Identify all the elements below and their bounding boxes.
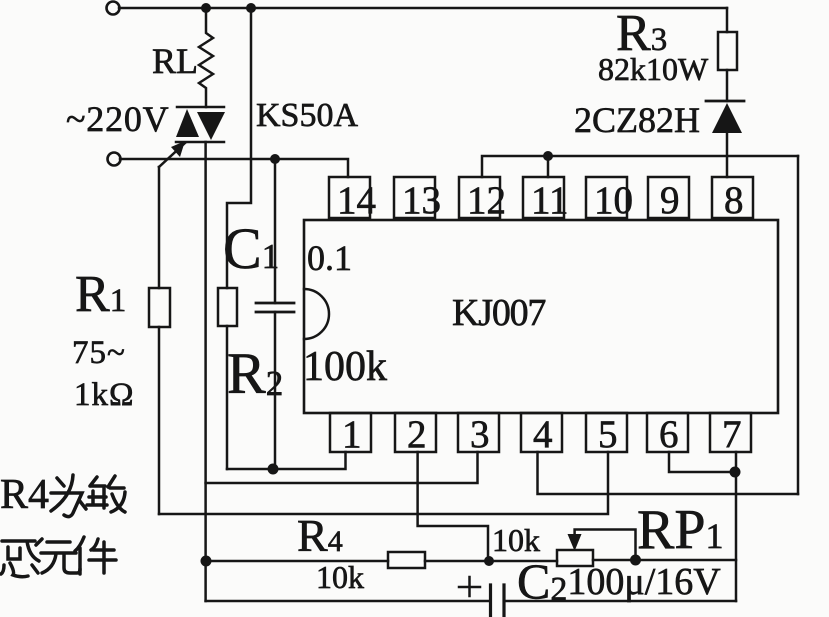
- wire pin5 line: [159, 452, 608, 514]
- node junction T2 wire / C1: [270, 154, 280, 164]
- wire R3 corner from top rail: [726, 8, 729, 32]
- svg-text:4: 4: [533, 413, 553, 456]
- wire R4 to junction: [425, 560, 557, 563]
- char gan: [1, 539, 42, 577]
- potentiometer RP1 body: [557, 550, 593, 566]
- svg-text:KJ007: KJ007: [452, 292, 545, 334]
- svg-text:10: 10: [594, 179, 633, 222]
- note text R4 (chinese): [0, 472, 125, 577]
- wire RP1 right: [593, 559, 736, 562]
- svg-text:0.1: 0.1: [307, 238, 352, 278]
- svg-text:2CZ82H: 2CZ82H: [574, 100, 700, 140]
- capacitor C1 plates: [256, 303, 294, 312]
- node junction pin6/pin7: [730, 467, 741, 478]
- wire diode to pin 8: [726, 133, 729, 177]
- pin 1 box: [330, 413, 371, 456]
- pin 6 box: [647, 413, 688, 456]
- char wei: [51, 475, 86, 517]
- capacitor C1 upper lead: [274, 159, 277, 303]
- node junction top rail / RL: [201, 3, 211, 13]
- wire R1 down to pin5 line: [158, 327, 161, 514]
- wire triac MT1 vertical down to bottom rail: [204, 142, 207, 601]
- pin 12 box: [459, 177, 506, 222]
- node junction triac line / R4 line: [201, 556, 212, 567]
- RP1 wiper arrow: [568, 534, 582, 551]
- wire pin 12 / pin 11 top line: [482, 156, 798, 177]
- wire R4 line left: [206, 560, 388, 563]
- wire pin 3 line: [206, 452, 478, 483]
- wire pin 7 down to bottom right corner: [735, 452, 738, 601]
- pin 5 box: [586, 413, 627, 456]
- wire pin 11 stub: [547, 156, 550, 177]
- wire pin 6 to pin 7: [669, 452, 735, 472]
- svg-text:1kΩ: 1kΩ: [74, 377, 135, 413]
- node junction R4 / pin2 branch: [484, 556, 494, 566]
- pin 11 box: [523, 177, 569, 222]
- svg-text:~220V: ~220V: [66, 99, 169, 139]
- capacitor C2 plates: [491, 585, 505, 616]
- svg-text:13: 13: [402, 179, 441, 222]
- svg-text:82k10W: 82k10W: [598, 51, 709, 87]
- wire R2 branch from top rail with jog: [227, 8, 251, 288]
- pin 13 box: [394, 177, 441, 222]
- pin 7 box: [710, 413, 751, 456]
- triac KS50A: [176, 107, 225, 142]
- svg-text:11: 11: [531, 179, 569, 222]
- node junction pin11 line: [543, 151, 553, 161]
- svg-text:C2100μ/16V: C2100μ/16V: [517, 553, 721, 609]
- wire pin 4 line: [538, 452, 799, 494]
- svg-text:5: 5: [598, 413, 618, 456]
- diode 2CZ82H cathode bar: [706, 100, 744, 103]
- wire bottom rail left of C2: [206, 600, 489, 603]
- svg-text:7: 7: [722, 413, 742, 456]
- svg-text:RL: RL: [152, 41, 198, 81]
- wire RP1 wiper to right terminal: [575, 530, 636, 561]
- terminal T1 (AC input top): [107, 2, 120, 15]
- capacitor C1 lower lead: [274, 312, 277, 469]
- svg-text:3: 3: [470, 413, 490, 456]
- pin 4 box: [521, 413, 562, 456]
- svg-text:1: 1: [342, 413, 362, 456]
- node junction C1 / pin1 line: [268, 464, 279, 475]
- svg-text:KS50A: KS50A: [256, 97, 358, 134]
- char jian: [75, 537, 116, 574]
- wire pin 2 branch: [418, 452, 488, 560]
- svg-text:6: 6: [659, 413, 679, 456]
- svg-text:9: 9: [660, 179, 680, 222]
- char min: [87, 476, 125, 512]
- pin 8 box: [712, 177, 753, 222]
- svg-text:10k: 10k: [316, 559, 364, 595]
- svg-text:100k: 100k: [303, 344, 387, 390]
- resistor R4: [388, 552, 425, 568]
- diode 2CZ82H triangle: [712, 103, 742, 133]
- wire pin1 line: [227, 452, 346, 469]
- IC notch: [304, 289, 329, 339]
- resistor R2: [218, 288, 237, 326]
- wire triac gate diagonal: [159, 143, 185, 167]
- svg-text:R4: R4: [0, 472, 49, 518]
- wire R2 down to pin1 line: [226, 326, 229, 469]
- char yuan: [41, 542, 80, 573]
- wire R3 to diode: [726, 70, 729, 101]
- node junction RP1 wiper / line: [630, 555, 641, 566]
- wire top rail from T1 to R3 corner: [119, 7, 727, 10]
- node junction top rail / R2 branch: [246, 3, 256, 13]
- pin 14 box: [329, 177, 376, 222]
- pin 2 box: [395, 413, 436, 456]
- svg-text:75~: 75~: [72, 335, 126, 371]
- resistor R3: [718, 32, 737, 70]
- svg-text:14: 14: [337, 179, 376, 222]
- gate arrowhead: [171, 141, 185, 157]
- wire right side down to pin4 line: [797, 156, 800, 494]
- pin 9 box: [648, 177, 689, 222]
- resistor RL (zigzag): [199, 8, 213, 107]
- pin 3 box: [458, 413, 499, 456]
- wire gate down to R1: [158, 167, 161, 288]
- resistor R1: [149, 288, 170, 327]
- wire bottom rail right of C2: [504, 600, 736, 603]
- terminal T2 (AC input bottom): [108, 153, 121, 166]
- pin 10 box: [586, 177, 633, 222]
- capacitor C2 polarity plus: [459, 577, 480, 596]
- svg-text:12: 12: [467, 179, 506, 222]
- svg-text:2: 2: [407, 413, 427, 456]
- svg-text:8: 8: [724, 179, 744, 222]
- IC body KJ007: [304, 220, 778, 413]
- wire T2 to pin 14: [120, 159, 348, 177]
